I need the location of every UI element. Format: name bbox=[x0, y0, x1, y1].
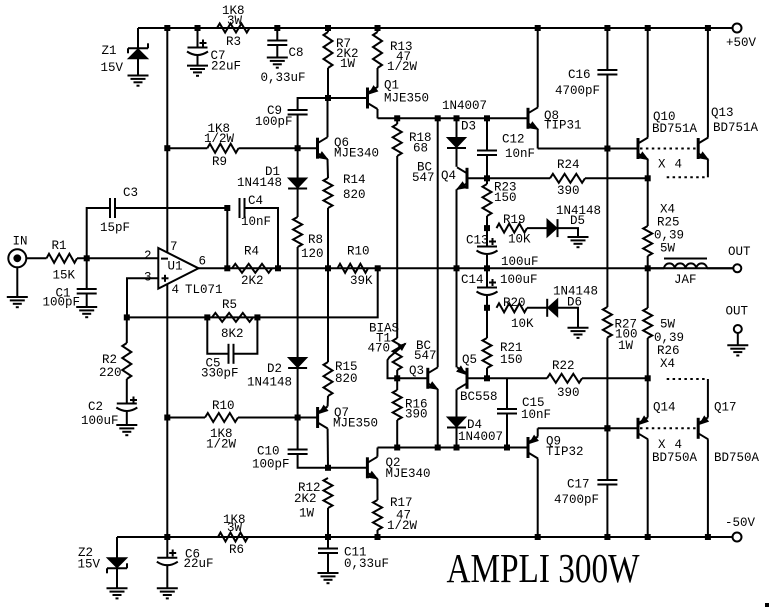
node top rail junction bbox=[604, 25, 610, 31]
svg-text:8K2: 8K2 bbox=[221, 327, 244, 341]
svg-text:C10: C10 bbox=[257, 445, 280, 459]
wire R22 right bbox=[582, 377, 648, 379]
svg-text:-50V: -50V bbox=[725, 516, 756, 530]
capacitor C17 4700pF bbox=[554, 478, 617, 508]
wire Q3 base bbox=[397, 377, 428, 379]
ground Z2 bbox=[107, 588, 128, 598]
wire Q2 collector bbox=[376, 448, 378, 457]
node D3 junction bbox=[454, 115, 460, 121]
resistor R23 150 bbox=[483, 178, 517, 228]
wire Q1 base bbox=[328, 97, 368, 99]
wire R22 left bbox=[507, 377, 547, 379]
wire Q6 emitter bbox=[327, 159, 330, 178]
wire Q14 emitter bbox=[647, 378, 649, 417]
zener Z1 bbox=[101, 43, 149, 75]
wire C11 bottom bbox=[327, 553, 329, 573]
svg-text:Q14: Q14 bbox=[653, 401, 676, 415]
wire Q3 collector bbox=[437, 118, 439, 367]
svg-text:1N4007: 1N4007 bbox=[442, 99, 487, 113]
svg-text:IN: IN bbox=[13, 235, 28, 249]
wire Q17 collector bbox=[707, 439, 709, 537]
svg-text:100uF: 100uF bbox=[81, 414, 119, 428]
zener Z2 bbox=[78, 546, 128, 573]
svg-text:R3: R3 bbox=[226, 35, 241, 49]
resistor R15 820 bbox=[324, 360, 358, 396]
svg-text:100pF: 100pF bbox=[43, 296, 81, 310]
wire Q13 emitter dashed bbox=[667, 176, 708, 178]
node R19 junction bbox=[484, 225, 490, 231]
node bottom rail junction bbox=[375, 534, 381, 540]
node output wire junction bbox=[484, 265, 490, 271]
svg-text:TL071: TL071 bbox=[185, 283, 223, 297]
node base row junction bbox=[394, 445, 400, 451]
svg-text:4700pF: 4700pF bbox=[555, 84, 600, 98]
resistor R20 10K bbox=[497, 296, 535, 331]
svg-text:3W: 3W bbox=[227, 14, 243, 28]
wire Q2-Q9 base row bbox=[378, 447, 529, 449]
svg-text:100uF: 100uF bbox=[501, 255, 539, 269]
wire C12 top bbox=[486, 118, 488, 150]
wire Q13 base dashed bbox=[640, 148, 697, 150]
wire C6 bottom bbox=[166, 566, 168, 588]
resistor R16 390 bbox=[393, 378, 428, 447]
wire Q9 to Q14 base bbox=[538, 427, 638, 429]
wire top +50V rail bbox=[138, 27, 733, 29]
ground Z1 bbox=[128, 76, 149, 86]
resistor R6 1K8 3W bbox=[218, 513, 248, 557]
svg-text:Q13: Q13 bbox=[711, 106, 734, 120]
resistor R24 390 bbox=[550, 158, 585, 198]
wire Q1 collector bbox=[377, 109, 379, 118]
wire C10 top bbox=[297, 418, 299, 450]
svg-text:547: 547 bbox=[412, 171, 435, 185]
ground C1 bbox=[76, 307, 97, 317]
svg-text:D3: D3 bbox=[461, 120, 476, 134]
node C17 top junction bbox=[604, 425, 610, 431]
transistor Q2 MJE340 bbox=[367, 456, 430, 481]
wire Q5 emitter bbox=[456, 268, 458, 367]
wire C9 bottom bbox=[297, 115, 299, 149]
resistor R19 10K bbox=[497, 213, 532, 247]
capacitor C9 100pF bbox=[255, 104, 308, 129]
wire R19 right bbox=[527, 227, 547, 229]
svg-text:1/2W: 1/2W bbox=[387, 60, 418, 74]
svg-text:X4: X4 bbox=[660, 357, 675, 371]
svg-text:R14: R14 bbox=[343, 173, 366, 187]
svg-text:C2: C2 bbox=[88, 400, 103, 414]
diode D5 1N4148 bbox=[547, 204, 601, 237]
svg-text:5W: 5W bbox=[660, 318, 676, 332]
svg-text:R10: R10 bbox=[347, 245, 370, 259]
node feedback left junction bbox=[124, 314, 130, 320]
diode D2 1N4148 bbox=[247, 358, 307, 390]
capacitor C5 330pF bbox=[201, 344, 239, 381]
resistor R22 390 bbox=[547, 359, 582, 400]
wire Q13 collector bbox=[707, 28, 709, 138]
wire R20 right bbox=[527, 307, 548, 309]
svg-text:1W: 1W bbox=[299, 507, 315, 521]
wire +15V bus upper bbox=[166, 28, 168, 148]
svg-text:C8: C8 bbox=[289, 46, 304, 60]
wire IN ground stub bbox=[16, 267, 18, 297]
node top rail junction bbox=[325, 25, 331, 31]
svg-text:TIP31: TIP31 bbox=[544, 119, 582, 133]
wire Q14 base dashed bbox=[640, 427, 697, 429]
op-amp U1 TL071 bbox=[144, 240, 223, 297]
wire C17 top bbox=[606, 428, 608, 480]
capacitor C15 10nF bbox=[497, 396, 551, 422]
wire Q8 to Q10 base bbox=[538, 148, 638, 150]
node top rail junction bbox=[535, 25, 541, 31]
wire C15 top bbox=[506, 378, 508, 409]
node R12 junction bbox=[325, 465, 331, 471]
wire IN to R1 bbox=[26, 257, 46, 259]
node R23 top junction bbox=[484, 175, 490, 181]
diode D4 1N4007 bbox=[447, 417, 503, 444]
diode D1 1N4148 bbox=[237, 165, 307, 190]
svg-text:150: 150 bbox=[494, 191, 517, 205]
wire Q17 emitter bbox=[707, 379, 709, 417]
svg-text:10nF: 10nF bbox=[241, 215, 271, 229]
svg-text:R6: R6 bbox=[229, 543, 244, 557]
svg-text:BD751A: BD751A bbox=[652, 122, 698, 136]
capacitor C3 15pF bbox=[100, 186, 138, 235]
svg-text:1N4007: 1N4007 bbox=[458, 430, 503, 444]
wire Q7 collector bbox=[327, 429, 329, 468]
resistor R25 0,39 5W bbox=[643, 178, 684, 268]
svg-text:330pF: 330pF bbox=[201, 367, 239, 381]
wire op-amp output bbox=[199, 267, 733, 269]
node bus/R10 junction bbox=[164, 415, 170, 421]
wire R12 bottom bbox=[327, 508, 329, 537]
capacitor C2 100uF bbox=[81, 397, 137, 429]
svg-text:U1: U1 bbox=[168, 260, 183, 274]
resistor R8 120 bbox=[293, 217, 323, 261]
node base row junction bbox=[504, 445, 510, 451]
wire D2 to Q7 base bbox=[297, 368, 299, 418]
wire C13 bottom bbox=[486, 255, 488, 268]
trimmer T1 BIAS 470 bbox=[368, 322, 406, 379]
wire D3 top bbox=[456, 118, 458, 137]
svg-text:0,33uF: 0,33uF bbox=[261, 71, 306, 85]
svg-text:R10: R10 bbox=[212, 399, 235, 413]
svg-text:C13: C13 bbox=[466, 234, 489, 248]
node top rail junction bbox=[274, 25, 280, 31]
capacitor C12 10nF bbox=[477, 133, 535, 162]
terminal -50V bbox=[725, 516, 756, 542]
svg-text:R19: R19 bbox=[503, 213, 526, 227]
wire R10b to Q7 bbox=[238, 417, 318, 419]
node top rail junction bbox=[164, 25, 170, 31]
wire R24 right bbox=[585, 177, 648, 179]
wire R9 left bbox=[167, 147, 207, 149]
svg-text:X: X bbox=[658, 438, 666, 452]
wire opamp pin4 down bbox=[166, 284, 168, 418]
svg-text:1/2W: 1/2W bbox=[206, 438, 237, 452]
svg-text:10K: 10K bbox=[508, 233, 531, 247]
capacitor C8 0,33uF bbox=[261, 41, 306, 86]
svg-text:1N4148: 1N4148 bbox=[237, 176, 282, 190]
wire D6 to ground bbox=[558, 308, 578, 328]
svg-text:AMPLI 300W: AMPLI 300W bbox=[447, 545, 640, 591]
wire R8 to D2 bbox=[297, 247, 299, 358]
svg-text:10K: 10K bbox=[511, 317, 534, 331]
wire C3 left bbox=[87, 208, 110, 258]
capacitor C7 22uF bbox=[187, 40, 241, 74]
wire pin3 bbox=[127, 278, 158, 317]
wire C12 bottom bbox=[486, 155, 488, 178]
wire C4 right bbox=[245, 208, 279, 268]
wire R17 bottom bbox=[377, 530, 379, 537]
svg-text:C17: C17 bbox=[567, 478, 590, 492]
node C3/C4 junction bbox=[224, 205, 230, 211]
wire C1 top bbox=[86, 258, 88, 289]
node R20 junction bbox=[484, 305, 490, 311]
node base row junction bbox=[435, 445, 441, 451]
svg-text:C4: C4 bbox=[248, 194, 263, 208]
svg-text:R2: R2 bbox=[102, 353, 117, 367]
wire C14 bottom bbox=[486, 296, 488, 308]
svg-text:39K: 39K bbox=[350, 274, 373, 288]
wire C11 top bbox=[327, 537, 329, 549]
transistor Q4 BC547 bbox=[412, 161, 467, 190]
node C17/Q9 junction bbox=[604, 425, 610, 431]
wire C2 bottom bbox=[126, 412, 128, 425]
node bottom rail junction bbox=[164, 534, 170, 540]
transistor Q10 BD751A bbox=[638, 110, 698, 160]
wire Q8 collector bbox=[537, 28, 539, 107]
transistor Q7 MJE350 bbox=[318, 406, 378, 431]
wire D1 to R8 bbox=[297, 189, 299, 218]
svg-text:Q1: Q1 bbox=[384, 79, 399, 93]
wire Z2 stub bbox=[117, 537, 167, 588]
wire Q2 emitter bbox=[376, 479, 378, 500]
svg-text:Q3: Q3 bbox=[409, 364, 424, 378]
wire C8 stub bbox=[276, 28, 278, 58]
svg-text:C12: C12 bbox=[502, 133, 525, 147]
wire Q13 emitter bbox=[707, 160, 709, 178]
svg-text:C14: C14 bbox=[461, 273, 484, 287]
transistor Q8 TIP31 bbox=[528, 107, 582, 132]
svg-text:Z1: Z1 bbox=[102, 44, 117, 58]
svg-text:C3: C3 bbox=[123, 186, 138, 200]
svg-text:820: 820 bbox=[343, 188, 366, 202]
svg-text:1W: 1W bbox=[340, 57, 356, 71]
svg-text:68: 68 bbox=[413, 142, 428, 156]
label x4 bottom bbox=[658, 438, 682, 452]
resistor R10 39K bbox=[338, 245, 374, 289]
svg-text:D5: D5 bbox=[570, 214, 585, 228]
wire D3 bottom bbox=[456, 149, 458, 167]
wire R1 to pin2 bbox=[77, 257, 158, 259]
svg-text:6: 6 bbox=[199, 255, 207, 269]
wire bottom -50V rail bbox=[117, 536, 733, 538]
svg-text:2K2: 2K2 bbox=[294, 492, 317, 506]
node base row junction bbox=[454, 445, 460, 451]
svg-text:15V: 15V bbox=[78, 558, 101, 572]
ground IN bbox=[7, 297, 28, 307]
terminal OUT upper bbox=[728, 245, 751, 272]
wire R2 top bbox=[126, 317, 128, 343]
resistor R14 820 bbox=[324, 173, 366, 208]
node bottom rail junction bbox=[535, 534, 541, 540]
transistor Q5 BC558 bbox=[457, 353, 498, 404]
wire Q7 emitter bbox=[327, 396, 329, 407]
wire R14 bottom bbox=[327, 208, 329, 268]
svg-text:820: 820 bbox=[335, 372, 358, 386]
svg-text:MJE350: MJE350 bbox=[333, 417, 378, 431]
resistor R7 2K2 1W bbox=[324, 28, 359, 98]
svg-text:R9: R9 bbox=[212, 155, 227, 169]
wire Q9 collector bbox=[537, 459, 539, 538]
wire R15 top bbox=[327, 268, 329, 362]
node Q3 collector junction bbox=[435, 115, 441, 121]
label x4 top bbox=[658, 158, 682, 172]
svg-text:2: 2 bbox=[144, 249, 152, 263]
node T1 bottom junction bbox=[394, 375, 400, 381]
svg-text:MJE340: MJE340 bbox=[386, 467, 431, 481]
resistor R4 2K2 bbox=[232, 245, 272, 289]
node output wire junction bbox=[224, 265, 230, 271]
svg-text:15V: 15V bbox=[101, 61, 124, 75]
svg-text:4: 4 bbox=[172, 283, 180, 297]
resistor R18 68 bbox=[393, 118, 432, 156]
node R24/R25 junction bbox=[645, 175, 651, 181]
node output wire junction bbox=[275, 265, 281, 271]
capacitor C1 100pF bbox=[43, 287, 97, 310]
svg-text:0,39: 0,39 bbox=[654, 331, 684, 345]
svg-text:OUT: OUT bbox=[726, 305, 749, 319]
resistor R2 220 bbox=[99, 343, 131, 380]
wire Q5 base bbox=[467, 377, 507, 379]
label title AMPLI 300W bbox=[447, 545, 640, 591]
node bottom rail junction bbox=[645, 534, 651, 540]
node bottom rail junction bbox=[705, 534, 711, 540]
wire R18 to T1 bbox=[396, 156, 398, 338]
node C9/D1 junction bbox=[295, 145, 301, 151]
wire C17 bottom bbox=[606, 485, 608, 538]
wire Q14 collector bbox=[647, 439, 649, 537]
svg-text:10nF: 10nF bbox=[521, 408, 551, 422]
svg-text:R24: R24 bbox=[557, 158, 580, 172]
resistor R17 47 1/2W bbox=[373, 496, 418, 533]
ground C6 bbox=[157, 588, 178, 598]
resistor R27 100 1W bbox=[603, 307, 638, 353]
wire D5 to ground bbox=[558, 228, 578, 237]
svg-text:0,33uF: 0,33uF bbox=[344, 557, 389, 571]
resistor R3 1K8 3W bbox=[217, 4, 250, 49]
ground D6 bbox=[568, 328, 589, 338]
svg-text:1W: 1W bbox=[618, 339, 634, 353]
node top rail junction bbox=[645, 25, 651, 31]
wire R27 to C17 junction bbox=[606, 338, 608, 429]
svg-text:R25: R25 bbox=[657, 216, 680, 230]
node input junction bbox=[84, 255, 90, 261]
svg-text:D2: D2 bbox=[267, 362, 282, 376]
wire Q10 emitter bbox=[647, 160, 649, 179]
transistor Q14 BD750A bbox=[638, 401, 698, 466]
wire Q17 emitter dashed bbox=[667, 378, 708, 380]
resistor R1 15K bbox=[47, 239, 78, 283]
transistor Q9 TIP32 bbox=[528, 435, 584, 460]
svg-text:1N4148: 1N4148 bbox=[247, 376, 292, 390]
svg-text:10nF: 10nF bbox=[505, 147, 535, 161]
capacitor C11 0,33uF bbox=[318, 546, 389, 572]
wire C4 junction drop bbox=[226, 208, 228, 268]
svg-text:15pF: 15pF bbox=[100, 221, 130, 235]
svg-text:X: X bbox=[658, 158, 666, 172]
wire C1 bottom bbox=[86, 294, 88, 308]
diode D3 1N4007 bbox=[447, 120, 476, 149]
node output wire junction bbox=[325, 265, 331, 271]
svg-text:R20: R20 bbox=[503, 296, 526, 310]
wire feedback bbox=[127, 268, 378, 317]
wire bus lower bbox=[166, 418, 168, 538]
wire C16 top bbox=[606, 28, 608, 70]
svg-text:470: 470 bbox=[368, 342, 391, 356]
node C5 left junction bbox=[204, 314, 210, 320]
svg-text:4: 4 bbox=[675, 158, 683, 172]
capacitor C10 100pF bbox=[252, 445, 308, 472]
svg-text:0,39: 0,39 bbox=[654, 229, 684, 243]
svg-text:Q5: Q5 bbox=[462, 353, 477, 367]
ground D5 bbox=[568, 237, 589, 247]
svg-text:3W: 3W bbox=[227, 521, 243, 535]
svg-text:390: 390 bbox=[405, 408, 428, 422]
capacitor C6 22uF bbox=[157, 548, 214, 572]
wire R24 left bbox=[487, 177, 550, 179]
node top rail junction bbox=[375, 25, 381, 31]
svg-text:MJE350: MJE350 bbox=[384, 92, 429, 106]
svg-text:390: 390 bbox=[557, 386, 580, 400]
node C12 junction bbox=[484, 115, 490, 121]
wire C16 bottom bbox=[606, 75, 608, 149]
wire R23 to C13 bbox=[486, 228, 488, 246]
wire C16 junction to R27 bbox=[606, 149, 608, 308]
svg-text:BD750A: BD750A bbox=[652, 451, 698, 465]
svg-text:TIP32: TIP32 bbox=[546, 445, 584, 459]
wire Q5 collector bbox=[456, 389, 458, 417]
svg-text:R4: R4 bbox=[244, 245, 259, 259]
wire C10 to Q2 base bbox=[298, 454, 368, 468]
capacitor C14 100uF bbox=[461, 273, 538, 295]
terminal +50V bbox=[726, 24, 757, 51]
wire bus to opamp pin7 bbox=[166, 148, 168, 253]
wire R2 to C2 bbox=[126, 379, 128, 404]
wire Q4 emitter bbox=[456, 189, 458, 268]
mark bottom-right corner bbox=[765, 603, 769, 607]
resistor R5 8K2 bbox=[212, 298, 253, 341]
wire C5 loop bbox=[207, 317, 257, 353]
wire Q9 emitter bbox=[537, 428, 539, 436]
svg-text:547: 547 bbox=[414, 349, 437, 363]
ground C11 bbox=[318, 573, 339, 583]
node Q7 base junction bbox=[295, 415, 301, 421]
svg-text:4700pF: 4700pF bbox=[554, 493, 599, 507]
node top rail junction bbox=[195, 25, 201, 31]
svg-text:100pF: 100pF bbox=[255, 115, 293, 129]
svg-text:120: 120 bbox=[301, 247, 324, 261]
svg-text:OUT: OUT bbox=[728, 245, 751, 259]
resistor R9 1K8 1/2W bbox=[204, 122, 239, 169]
capacitor C16 4700pF bbox=[555, 68, 617, 98]
wire OUT lower ground stub bbox=[737, 333, 739, 345]
svg-text:100pF: 100pF bbox=[252, 458, 290, 472]
wire D1 top bbox=[297, 148, 299, 178]
transistor Q3 BC547 bbox=[409, 339, 438, 389]
svg-text:5W: 5W bbox=[660, 242, 676, 256]
svg-text:X4: X4 bbox=[660, 203, 675, 217]
